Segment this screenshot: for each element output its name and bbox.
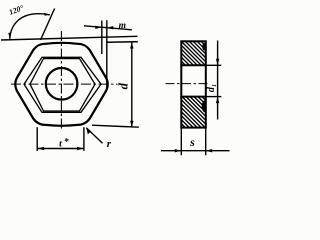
outer hexagon outline of insert bbox=[15, 43, 107, 126]
s extension lines bbox=[180, 129, 182, 156]
svg-text:t: t bbox=[59, 140, 62, 150]
s dimension line with arrows bbox=[161, 150, 230, 152]
d1 dimension line with arrows bbox=[217, 41, 219, 120]
side view: countersink crescent bottom bbox=[202, 100, 205, 112]
angle arc 120deg with arrows bbox=[10, 14, 50, 39]
side view: countersink crescent top bbox=[202, 43, 205, 51]
wire: inclined extension line of 120deg angle bbox=[41, 9, 55, 41]
l* extension lines bbox=[36, 127, 38, 151]
hole circle bbox=[46, 68, 78, 100]
side view: outline rectangle bbox=[181, 41, 206, 127]
svg-text:*: * bbox=[64, 137, 69, 148]
inner hexagon A (top face edge) bbox=[24, 57, 101, 112]
r leader with arrow bbox=[86, 128, 102, 143]
side view: hole top edge bbox=[180, 64, 207, 66]
svg-text:r: r bbox=[107, 138, 112, 150]
side view centerline bbox=[166, 83, 209, 85]
wire: horizontal extension line (120deg ray / d top reference) bbox=[1, 36, 138, 40]
m dimension line with arrows bbox=[84, 26, 132, 30]
side view: hatched top block bbox=[158, 41, 229, 65]
d dimension line with arrows bbox=[131, 42, 133, 127]
wire: top projection line to side view bbox=[106, 41, 137, 44]
side view: hole bottom edge bbox=[180, 96, 207, 98]
m extension line 1 bbox=[101, 21, 103, 55]
node: main view centerline horizontal bbox=[11, 83, 118, 85]
svg-text:s: s bbox=[189, 135, 195, 149]
wire: bottom extension/projection line to side view bbox=[92, 125, 139, 127]
svg-text:d: d bbox=[117, 82, 131, 89]
svg-text:d₁: d₁ bbox=[206, 84, 217, 93]
node: main view centerline vertical bbox=[60, 31, 62, 131]
m extension line 2 bbox=[106, 20, 108, 90]
l* dimension line with arrows bbox=[37, 148, 84, 150]
svg-text:m: m bbox=[119, 21, 126, 31]
d1 extension lines bbox=[206, 64, 221, 66]
side view: hatched bottom block bbox=[150, 97, 236, 128]
inner hexagon B (bottom face edge) bbox=[30, 59, 95, 111]
